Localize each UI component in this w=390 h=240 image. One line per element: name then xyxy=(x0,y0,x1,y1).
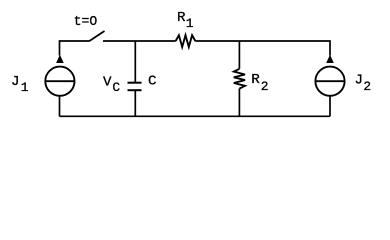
svg-text:J: J xyxy=(11,74,20,90)
wire R1 right to top-right corner down to J2 xyxy=(195,41,330,56)
wire R2 bottom stub xyxy=(238,89,240,117)
svg-text:2: 2 xyxy=(261,79,269,94)
svg-text:1: 1 xyxy=(186,16,194,31)
switch S1 blade (t=0) xyxy=(89,31,105,41)
svg-text:2: 2 xyxy=(363,79,371,94)
svg-text:C: C xyxy=(112,80,120,95)
wire J1 bottom stub xyxy=(59,97,61,117)
capacitor C plates xyxy=(128,83,142,91)
svg-text:1: 1 xyxy=(21,80,29,95)
current source J1 arrow xyxy=(56,55,64,63)
wire capacitor top stub xyxy=(134,41,136,83)
current source J2 chord xyxy=(315,80,344,82)
current source J1 chord xyxy=(45,80,74,82)
resistor R1 xyxy=(176,35,196,47)
current source J2 circle xyxy=(315,67,344,96)
svg-text:J: J xyxy=(355,72,364,88)
wire top-left horizontal (left corner to switch pivot) xyxy=(60,41,90,56)
wire R2 top stub xyxy=(238,41,240,69)
current source J2 arrow xyxy=(326,55,334,63)
svg-text:C: C xyxy=(148,74,157,90)
wire J2 bottom stub xyxy=(329,97,331,117)
resistor R2 xyxy=(234,69,245,89)
wire capacitor bottom stub xyxy=(134,90,136,116)
svg-text:V: V xyxy=(103,75,112,91)
wire bottom rail xyxy=(60,115,331,117)
wire switch right contact to R1 xyxy=(103,40,176,42)
svg-text:R: R xyxy=(251,72,260,88)
svg-text:t=O: t=O xyxy=(74,14,98,30)
current source J1 circle xyxy=(45,67,74,96)
svg-text:R: R xyxy=(177,10,186,26)
